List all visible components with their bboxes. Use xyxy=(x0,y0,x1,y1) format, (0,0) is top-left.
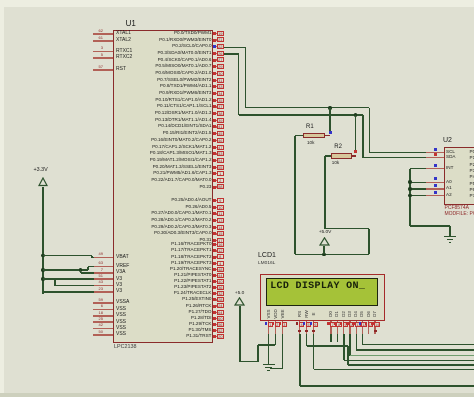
U2 pin name SCL xyxy=(446,150,455,155)
U1 pin number 62 xyxy=(0,29,103,33)
U1 pin XTAL1 (62) stub xyxy=(93,33,113,35)
wire to U2 ground xyxy=(410,225,450,227)
U1 pin 39 state indicator xyxy=(213,119,216,122)
wire +3.3V bus xyxy=(42,187,44,294)
node +5V tap xyxy=(322,253,326,257)
U1 pin number 14 box xyxy=(217,225,224,230)
U1 pin P0.6/MOSI0/CAP0.2/AD1.0 (30) stub xyxy=(213,73,224,74)
LCD pin 4 state indicator xyxy=(296,322,299,325)
U1 pin name P0.26/AD0.5 xyxy=(12,205,212,210)
U1 pin name P1.22/PIPESTAT1 xyxy=(12,279,212,284)
U1 pin 12 state indicator xyxy=(213,249,216,252)
LCD pin name D7 (vertical) xyxy=(368,307,382,321)
U1 pin name VREF xyxy=(116,264,129,269)
U1 pin 19 state indicator xyxy=(213,32,216,35)
LCD text xyxy=(270,281,365,292)
U2 pin name SDA xyxy=(446,155,455,160)
wire VDD drop xyxy=(275,334,277,345)
LCD pin number 4 box xyxy=(299,322,305,327)
microcontroller U1 LPC2138 body xyxy=(113,30,214,343)
U1 pin number 39 box xyxy=(217,118,224,123)
U1 pin RST (57) stub xyxy=(93,69,113,71)
LCD pin 13 stub xyxy=(368,321,369,334)
U1 pin name P0.14/DCD1/EINT1/SDA1 xyxy=(12,124,212,129)
wire D1 stub xyxy=(337,334,339,342)
wire E to edge xyxy=(314,369,474,371)
U1 pin P0.11/CTS1/CAP1.1/SCL1 (37) stub xyxy=(213,106,224,107)
U1 pin 1 state indicator xyxy=(213,172,216,175)
power +5V arrow (LCD) xyxy=(234,297,245,306)
U1 pin name P0.30/AD0.3/EINT3/CAP0.0 xyxy=(12,231,212,236)
U1 pin name V3A xyxy=(116,270,125,275)
LCD pin 14 state indicator xyxy=(371,322,374,325)
U2 pin name A0 xyxy=(446,180,452,185)
U1 pin VBAT (49) stub xyxy=(93,257,113,259)
U1 pin P1.25/EXTIN0 (28) stub xyxy=(213,299,224,300)
U1 pin P1.20/TRACESYNC (48) stub xyxy=(213,269,224,270)
U1 pin number 24 box xyxy=(217,303,224,308)
U1 pin number 1 box xyxy=(217,171,224,176)
U1 pin 24 state indicator xyxy=(213,305,216,308)
U1 pin P0.30/AD0.3/EINT3/CAP0.0 (15) stub xyxy=(213,233,224,234)
U1 pin name VBAT xyxy=(116,255,129,260)
LCD pin 2 state indicator xyxy=(272,322,275,325)
U1 pin P1.30/TMS (52) stub xyxy=(213,330,224,331)
U1 pin 28 state indicator xyxy=(213,298,216,301)
U1 pin name P1.30/TMS xyxy=(12,328,212,333)
U1 pin P0.21/PWM5/AD1.6/CAP1.3 (1) stub xyxy=(213,173,224,174)
wire +5V rail xyxy=(295,254,369,256)
wire SDA into U2 xyxy=(363,157,427,159)
U1 pin P0.5/MISO0/MAT0.1/AD0.7 (29) stub xyxy=(213,66,224,67)
wire to VBAT xyxy=(43,255,92,257)
U1 pin P1.23/PIPESTAT2 (36) stub xyxy=(213,287,224,288)
LCD pin name D2 (vertical) xyxy=(337,307,351,321)
LCD pin 8 state indicator xyxy=(334,322,337,325)
U1 pin 22 state indicator xyxy=(213,45,216,48)
U1 pin name VSS xyxy=(116,313,126,318)
U2 pin SDA (15) stub xyxy=(426,157,444,158)
U1 pin P1.22/PIPESTAT1 (40) stub xyxy=(213,281,224,282)
U1 pin VSS (42) stub xyxy=(93,328,113,330)
wire VEE to ground xyxy=(270,368,283,370)
wire to VREF xyxy=(43,269,88,271)
U1 pin 16 state indicator xyxy=(213,243,216,246)
wire U2 A1 xyxy=(410,188,426,190)
LCD pin number 9 box xyxy=(343,322,349,327)
wire RS down xyxy=(299,334,301,386)
U2 pin name P4 (clipped) xyxy=(470,175,474,180)
U1 pin 4 state indicator xyxy=(213,262,216,265)
U1 pin P0.8/TXD1/PWM4/AD1.1 (33) stub xyxy=(213,86,224,87)
LCD pin name RW (vertical) xyxy=(300,307,314,321)
wire D2 to edge xyxy=(344,360,474,362)
U1 pin 41 state indicator xyxy=(213,125,216,128)
U1 pin name XTAL1 xyxy=(116,31,131,36)
wire R1 top lead xyxy=(329,108,331,133)
U1 pin name P0.4/SCK0/CAP0.1/AD0.6 xyxy=(12,58,212,63)
U1 pin 53 state indicator xyxy=(213,152,216,155)
LCD pin 5 stub xyxy=(306,321,307,334)
U1 pin name P0.22/AD1.7/CAP0.0/MAT0.0 xyxy=(12,178,212,183)
U2 pin A2 (3) stub xyxy=(426,195,444,196)
U1 pin name P1.19/TRACEPKT3 xyxy=(12,261,212,266)
wire +5V stem xyxy=(323,246,325,255)
U1 pin name P0.17/CAP1.2/SCK1/MAT1.2 xyxy=(12,145,212,150)
U1 pin XTAL2 (61) stub xyxy=(93,40,113,42)
U1 pin number 37 box xyxy=(217,104,224,109)
wire SDA across xyxy=(239,114,363,116)
U1 pin 29 state indicator xyxy=(213,65,216,68)
U2 pin name A1 xyxy=(446,186,452,191)
U1 pin number 58 box xyxy=(217,184,224,189)
U1 pin 40 state indicator xyxy=(213,280,216,283)
U1 pin P0.31 (17) stub xyxy=(213,240,224,241)
U2 pin A1 (2) stub xyxy=(426,188,444,189)
wire R2 to rail corner xyxy=(325,228,369,230)
U1 pin P0.25/AD0.4/AOUT (9) stub xyxy=(213,200,224,201)
U1 pin name P0.6/MOSI0/CAP0.2/AD1.0 xyxy=(12,71,212,76)
LCD pin number 12 box xyxy=(361,322,367,327)
wire U2 A2 xyxy=(410,195,426,197)
U1 pin name XTAL2 xyxy=(116,38,131,43)
U1 pin VSS (25) stub xyxy=(93,321,113,323)
U1 pin P0.26/AD0.5 (10) stub xyxy=(213,207,224,208)
LCD pin 2 stub xyxy=(275,321,276,334)
U1 pin name P0.31 xyxy=(12,238,212,243)
U1 pin name P1.16/TRACEPKT0 xyxy=(12,242,212,247)
R2 reference label xyxy=(334,144,342,150)
LCD pin origin marker xyxy=(312,330,315,332)
U1 pin number 20 box xyxy=(217,334,224,339)
wire R1 to +5V rail xyxy=(294,136,296,255)
wire D3 to edge (light) xyxy=(350,355,474,357)
U1 pin P1.21/PIPESTAT0 (44) stub xyxy=(213,275,224,276)
U1 pin number 6 xyxy=(0,304,103,308)
LCD pin 10 stub xyxy=(349,321,350,334)
wire jog VBAT xyxy=(91,256,93,258)
U1 pin 60 state indicator xyxy=(213,317,216,320)
wire to V3 pin 51 xyxy=(43,278,94,280)
U1 pin 44 state indicator xyxy=(213,274,216,277)
power +5V label (LCD) xyxy=(235,292,244,297)
U1 pin name P0.8/TXD1/PWM4/AD1.1 xyxy=(12,84,212,89)
U1 pin name P0.21/PWM5/AD1.6/CAP1.3 xyxy=(12,171,212,176)
U1 pin VSS (6) stub xyxy=(93,309,113,311)
node V3 branch xyxy=(41,277,45,281)
LCD pin origin marker xyxy=(305,330,308,332)
wire ground stem U2 xyxy=(449,226,451,236)
U1 pin number 64 box xyxy=(217,310,224,315)
U1 pin 56 state indicator xyxy=(213,323,216,326)
U1 pin P1.28/TDI (60) stub xyxy=(213,318,224,319)
U1 pin VSS (18) stub xyxy=(93,315,113,317)
U1 pin P0.22/AD1.7/CAP0.0/MAT0.0 (2) stub xyxy=(213,180,224,181)
node A1 junction xyxy=(408,187,412,191)
LCD pin 11 state indicator xyxy=(352,322,355,325)
U1 pin P0.10/RTS1/CAP1.0/AD1.2 (35) stub xyxy=(213,100,224,101)
U1 pin name P0.23 xyxy=(12,185,212,190)
ground (U2 address pins) xyxy=(444,236,456,237)
U1 pin number 26 box xyxy=(217,51,224,56)
U1 pin 45 state indicator xyxy=(213,132,216,135)
frame dark bottom strip xyxy=(0,393,474,397)
R2 value 10k xyxy=(332,161,339,166)
U1 pin P0.18/CAP1.3/MISO1/MAT1.3 (53) stub xyxy=(213,153,224,154)
indicator U2 INT xyxy=(434,164,437,167)
U1 pin P0.0/TXD0/PWM1 (19) stub xyxy=(213,33,224,34)
LCD pin name D4 (vertical) xyxy=(349,307,363,321)
U1 pin P0.4/SCK0/CAP0.1/AD0.6 (27) stub xyxy=(213,59,224,60)
LCD pin number 2 box xyxy=(275,322,281,327)
U1 pin name VSSA xyxy=(116,300,129,305)
U1 pin P0.15/RI1/EINT2/AD1.5 (45) stub xyxy=(213,133,224,134)
U1 pin number 46 box xyxy=(217,138,224,143)
LCD pin 12 stub xyxy=(362,321,363,334)
U1 pin name P0.15/RI1/EINT2/AD1.5 xyxy=(12,131,212,136)
U1 pin number 25 xyxy=(0,317,103,321)
U1 pin P0.2/SCL0/CAP0.0 (22) stub xyxy=(213,46,224,47)
wire RW down 2 xyxy=(347,346,349,365)
wire to V3 pin 23 xyxy=(43,291,94,293)
U1 pin number 28 box xyxy=(217,297,224,302)
wire into VREF pin xyxy=(88,266,94,268)
U1 pin number 44 box xyxy=(217,273,224,278)
wire VSS to ground xyxy=(268,334,270,364)
U1 pin VSSA (59) stub xyxy=(93,302,113,304)
U1 pin P0.29/AD0.2/CAP0.3/MAT0.3 (14) stub xyxy=(213,227,224,228)
U1 pin number 7 xyxy=(0,268,103,272)
LCD pin number 1 box xyxy=(268,322,274,327)
R1 value 10k xyxy=(307,141,314,146)
U1 pin number 59 xyxy=(0,298,103,302)
U1 pin P1.27/TDO (64) stub xyxy=(213,312,224,313)
U1 pin number 40 box xyxy=(217,279,224,284)
U1 pin number 30 box xyxy=(217,71,224,76)
node SCL / R1 xyxy=(328,106,332,110)
U1 pin number 42 xyxy=(0,323,103,327)
resistor R2 xyxy=(331,153,352,159)
wire drop V3A xyxy=(80,270,82,273)
U1 pin 58 state indicator xyxy=(213,186,216,189)
LCD pin 10 state indicator xyxy=(346,322,349,325)
U1 pin name P1.25/EXTIN0 xyxy=(12,297,212,302)
wire into V3 pin 43 xyxy=(55,285,94,287)
wire into V3A pin xyxy=(81,272,94,274)
display LCD1 LM016L body xyxy=(260,274,384,321)
LCD pin number 6 box xyxy=(313,322,319,327)
U1 pin name P0.0/TXD0/PWM1 xyxy=(12,31,212,36)
U1 pin name P0.2/SCL0/CAP0.0 xyxy=(12,44,212,49)
U1 pin 34 state indicator xyxy=(213,92,216,95)
U1 pin P0.17/CAP1.2/SCK1/MAT1.2 (47) stub xyxy=(213,147,224,148)
U1 pin P1.18/TRACEPKT2 (8) stub xyxy=(213,256,224,257)
LCD1 reference label xyxy=(258,252,276,259)
U1 pin name P0.1/RXD0/PWM3/EINT0 xyxy=(12,38,212,43)
LCD pin 13 state indicator xyxy=(365,322,368,325)
U1 pin name V3 xyxy=(116,283,122,288)
U1 pin 2 state indicator xyxy=(213,179,216,182)
U1 pin name P0.10/RTS1/CAP1.0/AD1.2 xyxy=(12,98,212,103)
U1 pin P1.19/TRACEPKT3 (4) stub xyxy=(213,263,224,264)
wire D0 stub xyxy=(330,334,332,342)
U1 pin number 50 xyxy=(0,330,103,334)
LCD pin number 7 box xyxy=(330,322,336,327)
U2 MODFILE label xyxy=(445,212,474,217)
U1 pin number 33 box xyxy=(217,84,224,89)
U1 pin number 48 box xyxy=(217,267,224,272)
U1 pin number 13 box xyxy=(217,218,224,223)
U1 pin 46 state indicator xyxy=(213,139,216,142)
power +3.3V arrow xyxy=(38,177,48,187)
U1 pin name RST xyxy=(116,67,126,72)
U1 pin name RTXC2 xyxy=(116,55,132,60)
U2 pin name P0 (clipped) xyxy=(470,150,474,155)
U1 pin number 53 box xyxy=(217,151,224,156)
I/O expander U2 PCF8574A body xyxy=(444,147,474,205)
U2 pin name P6 (clipped) xyxy=(470,188,474,193)
U1 pin 20 state indicator xyxy=(213,335,216,338)
U1 pin 30 state indicator xyxy=(213,72,216,75)
U1 pin number 55 box xyxy=(217,165,224,170)
U1 pin number 12 box xyxy=(217,248,224,253)
LCD pin 7 stub xyxy=(330,321,331,334)
LCD pin name VSS (vertical) xyxy=(262,307,276,321)
U1 pin name P0.27/AD0.0/CAP0.1/MAT0.1 xyxy=(12,211,212,216)
indicator U2 A1 xyxy=(434,184,437,187)
indicator U2 A0 xyxy=(434,177,437,180)
wire SDA down xyxy=(238,54,240,115)
node VBAT branch xyxy=(41,254,45,258)
U2 pin name P2 (clipped) xyxy=(470,163,474,168)
U1 pin name P0.25/AD0.4/AOUT xyxy=(12,198,212,203)
LCD pin 1 stub xyxy=(268,321,269,334)
U1 pin name P1.29/TCK xyxy=(12,322,212,327)
U1 pin name P0.20/MAT1.3/SSEL1/EINT3 xyxy=(12,165,212,170)
indicator U2 SDA xyxy=(434,153,437,156)
LCD pin 8 stub xyxy=(337,321,338,334)
U1 pin RTXC2 (5) stub xyxy=(93,57,113,59)
U1 pin P1.26/RTCK (24) stub xyxy=(213,305,224,306)
wire SDA down to U2 xyxy=(362,115,364,158)
U1 pin 10 state indicator xyxy=(213,206,216,209)
wire D5 to edge xyxy=(362,344,474,346)
wire bus end jog xyxy=(42,292,44,294)
indicator R2 red xyxy=(354,150,357,153)
node A2 junction xyxy=(408,194,412,198)
U1 pin 17 state indicator xyxy=(213,239,216,242)
U1 pin name P0.9/RXD1/PWM6/EINT3 xyxy=(12,91,212,96)
LCD pin 14 stub xyxy=(374,321,375,334)
U1 pin number 23 xyxy=(0,287,103,291)
U2 pin name P7 (clipped) xyxy=(470,194,474,199)
U1 pin number 32 box xyxy=(217,291,224,296)
LCD pin name D0 (vertical) xyxy=(324,307,338,321)
U1 pin number 54 box xyxy=(217,158,224,163)
indicator U2 SCL xyxy=(434,148,437,151)
U1 pin number 47 box xyxy=(217,145,224,150)
U1 pin name P0.5/MISO0/MAT0.1/AD0.7 xyxy=(12,64,212,69)
wire D2 down xyxy=(343,334,345,360)
node VREF branch xyxy=(41,268,45,272)
node A0 junction xyxy=(408,180,412,184)
U1 pin 21 state indicator xyxy=(213,39,216,42)
U1 pin V3 (23) stub xyxy=(93,291,113,293)
U1 pin 15 state indicator xyxy=(213,232,216,235)
LCD screen xyxy=(266,278,379,306)
wire D4 down xyxy=(356,334,358,350)
U1 pin P0.16/EINT0/MAT0.2/CAP0.2 (46) stub xyxy=(213,140,224,141)
U1 pin name VSS xyxy=(116,320,126,325)
U1 pin V3 (51) stub xyxy=(93,278,113,280)
wire RW to edge xyxy=(348,364,474,366)
U1 pin number 63 xyxy=(0,261,103,265)
U2 pin INT (13) stub xyxy=(426,168,444,169)
U1 pin name VSS xyxy=(116,307,126,312)
U1 pin 33 state indicator xyxy=(213,85,216,88)
U1 pin 35 state indicator xyxy=(213,99,216,102)
U1 pin name P1.18/TRACEPKT2 xyxy=(12,255,212,260)
U1 pin number 60 box xyxy=(217,316,224,321)
U1 pin name P0.3/SDA0/MAT0.0/EINT1 xyxy=(12,51,212,56)
U1 pin number 19 box xyxy=(217,31,224,36)
U1 pin number 8 box xyxy=(217,254,224,259)
wire SCL into U2 xyxy=(370,152,427,154)
U1 pin 52 state indicator xyxy=(213,329,216,332)
U1 pin number 56 box xyxy=(217,322,224,327)
U1 pin number 27 box xyxy=(217,57,224,62)
node V3A branch xyxy=(79,268,83,272)
U1 pin P1.16/TRACEPKT0 (16) stub xyxy=(213,244,224,245)
LCD pin number 14 box xyxy=(374,322,380,327)
U1 pin number 5 xyxy=(0,53,103,57)
U1 pin number 15 box xyxy=(217,231,224,236)
U1 pin number 11 box xyxy=(217,211,224,216)
U1 pin VREF (63) stub xyxy=(93,266,113,268)
wire U2 INT xyxy=(410,168,426,170)
U1 pin P0.13/DTR1/MAT1.1/AD1.4 (39) stub xyxy=(213,120,224,121)
wire RW down xyxy=(306,334,308,346)
U1 pin name P1.20/TRACESYNC xyxy=(12,267,212,272)
LCD pin 12 state indicator xyxy=(359,322,362,325)
U1 pin number 9 box xyxy=(217,198,224,203)
U1 pin name V3 xyxy=(116,289,122,294)
LCD pin name VDD (vertical) xyxy=(269,307,283,321)
U1 pin number 34 box xyxy=(217,91,224,96)
U2 pin A0 (1) stub xyxy=(426,182,444,183)
LCD pin 3 state indicator xyxy=(279,322,282,325)
U1 pin 37 state indicator xyxy=(213,105,216,108)
wire SCL down xyxy=(245,47,247,107)
U1 pin name VSS xyxy=(116,332,126,337)
U1 pin name P0.16/EINT0/MAT0.2/CAP0.2 xyxy=(12,138,212,143)
LCD pin name E (vertical) xyxy=(307,307,321,321)
wire D4 to edge xyxy=(356,349,474,351)
U1 pin P0.12/DSR1/MAT1.0/AD1.3 (38) stub xyxy=(213,113,224,114)
wire U2 A0 xyxy=(410,182,426,184)
U1 pin number 10 box xyxy=(217,205,224,210)
U1 pin P0.1/RXD0/PWM3/EINT0 (21) stub xyxy=(213,39,224,40)
LCD pin 6 stub xyxy=(313,321,314,334)
U1 pin name P0.19/MAT1.2/MOSI1/CAP1.2 xyxy=(12,158,212,163)
LCD pin 7 state indicator xyxy=(327,322,330,325)
LCD pin 5 state indicator xyxy=(303,322,306,325)
wire R2 left lead xyxy=(325,155,331,157)
LCD pin number 3 box xyxy=(282,322,288,327)
U1 pin name P0.18/CAP1.3/MISO1/MAT1.3 xyxy=(12,151,212,156)
U1 pin P1.17/TRACEPKT1 (12) stub xyxy=(213,250,224,251)
U1 pin name P0.13/DTR1/MAT1.1/AD1.4 xyxy=(12,118,212,123)
